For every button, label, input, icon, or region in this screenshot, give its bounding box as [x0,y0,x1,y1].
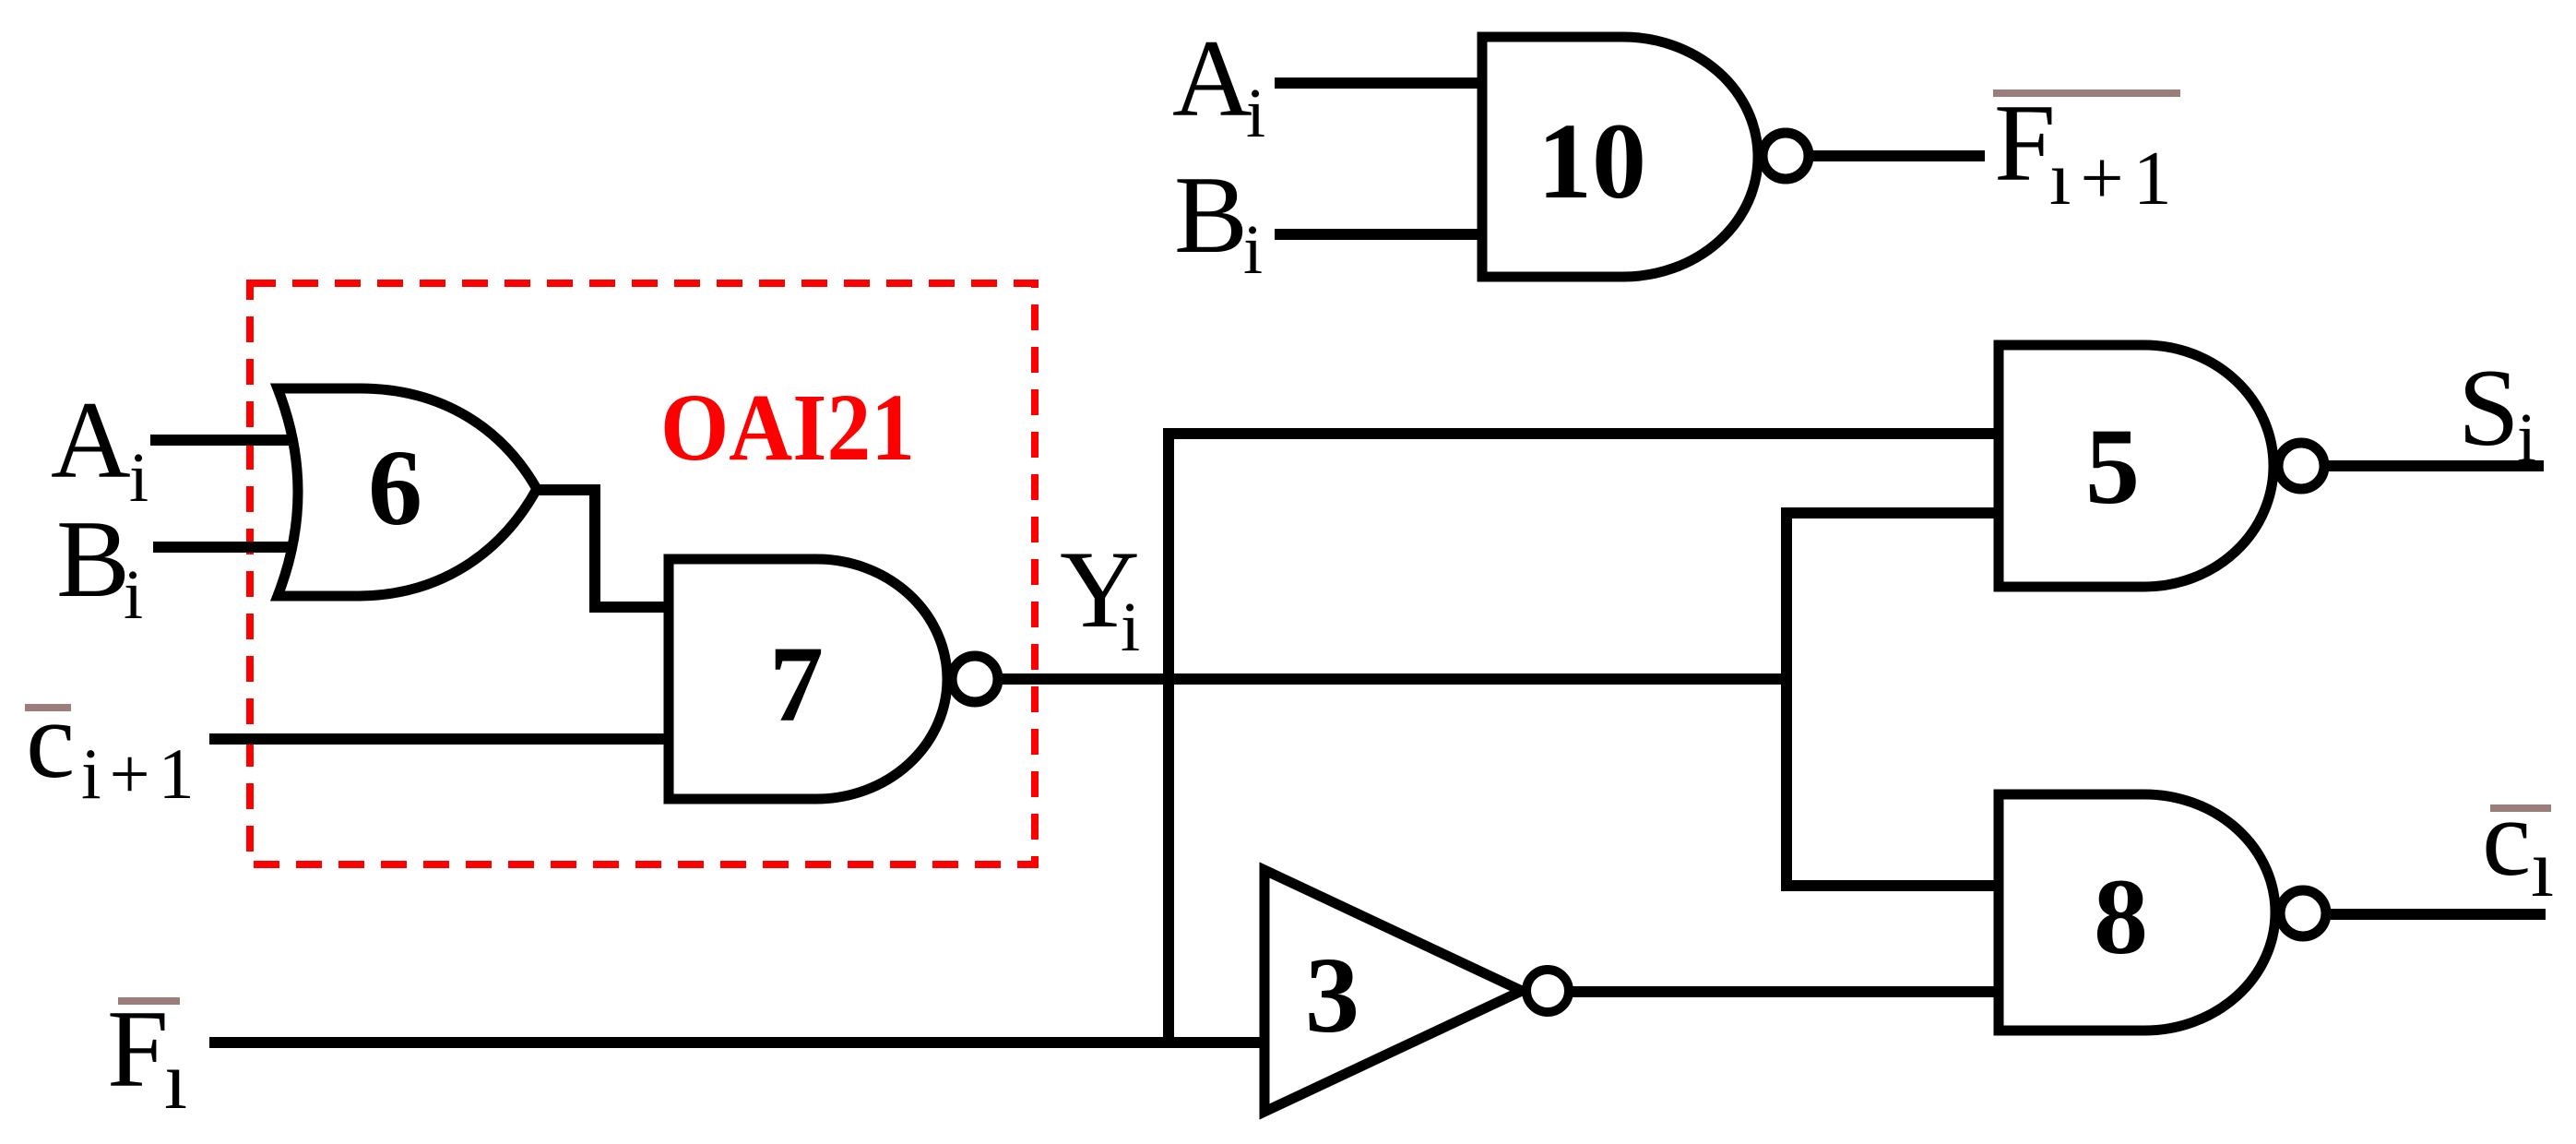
wire F_i to inverter 3 [209,1037,1264,1048]
wire OR6 output to NAND7 input jog [537,490,669,607]
svg-text:B: B [56,497,130,620]
svg-text:ı: ı [164,1035,187,1126]
svg-text:i+1: i+1 [81,733,203,814]
bubble NAND7 [952,656,998,702]
wire bus to NAND8 input 1 [1781,880,1999,891]
wire A_i to NAND10 [1275,77,1482,89]
wire A_i to OR6 [150,435,295,446]
nand-gate 10 [1482,37,1758,277]
svg-text:i: i [1246,75,1265,152]
or-gate 6 [278,388,537,596]
svg-text:7: 7 [769,624,824,745]
svg-text:10: 10 [1537,101,1646,221]
wire c_i+1 to NAND7 [209,733,669,745]
svg-text:S: S [2458,346,2520,469]
svg-text:OAI21: OAI21 [660,375,915,481]
svg-text:c: c [2482,776,2531,899]
svg-text:i: i [129,439,148,517]
svg-text:ı+1: ı+1 [2049,136,2181,221]
wire vertical from top branch down to F_i wire [1163,434,1174,1043]
wire B_i to OR6 [153,542,295,553]
svg-text:A: A [1172,17,1252,139]
svg-text:8: 8 [2094,856,2148,977]
svg-text:B: B [1174,153,1248,276]
svg-text:ı: ı [2531,823,2554,914]
inverter 3 [1264,870,1522,1112]
wire B_i to NAND10 [1275,229,1482,240]
svg-text:i: i [1243,211,1263,289]
wire Y_i from NAND7 to vertical bus [1003,673,1787,685]
bubble inverter 3 [1526,970,1569,1012]
svg-text:F: F [107,987,169,1110]
svg-text:i: i [124,556,143,634]
label F_i+1 with overline [1993,81,2181,221]
label c_i output with overline [2482,776,2554,914]
svg-text:A: A [51,378,131,501]
bubble NAND10 [1763,133,1809,179]
nand-gate 8 [1999,794,2275,1031]
wire S_i output [2329,460,2544,471]
wire F_i+1 output [1813,150,1985,161]
svg-text:3: 3 [1305,935,1359,1055]
wire vertical bus x1937 [1781,513,1792,886]
label F_i with overline [107,987,187,1126]
svg-text:i: i [1121,589,1140,666]
bubble NAND8 [2280,890,2326,936]
nand-gate 7 [669,559,947,799]
svg-text:c: c [26,678,75,801]
wire bus to NAND5 input 2 [1781,507,1999,518]
label c_i+1 with overline [25,678,203,814]
wire c_i output [2331,909,2546,920]
svg-text:5: 5 [2085,406,2140,527]
svg-text:i: i [2517,399,2536,477]
bubble NAND5 [2278,443,2324,489]
dashed box OAI21 [250,283,1035,864]
wire top branch to NAND5 input 1 [1163,428,1999,439]
svg-text:F: F [1994,81,2056,204]
svg-text:6: 6 [368,427,422,548]
wire inverter 3 output to NAND8 input 2 [1569,986,1999,997]
nand-gate 5 [1999,345,2273,587]
